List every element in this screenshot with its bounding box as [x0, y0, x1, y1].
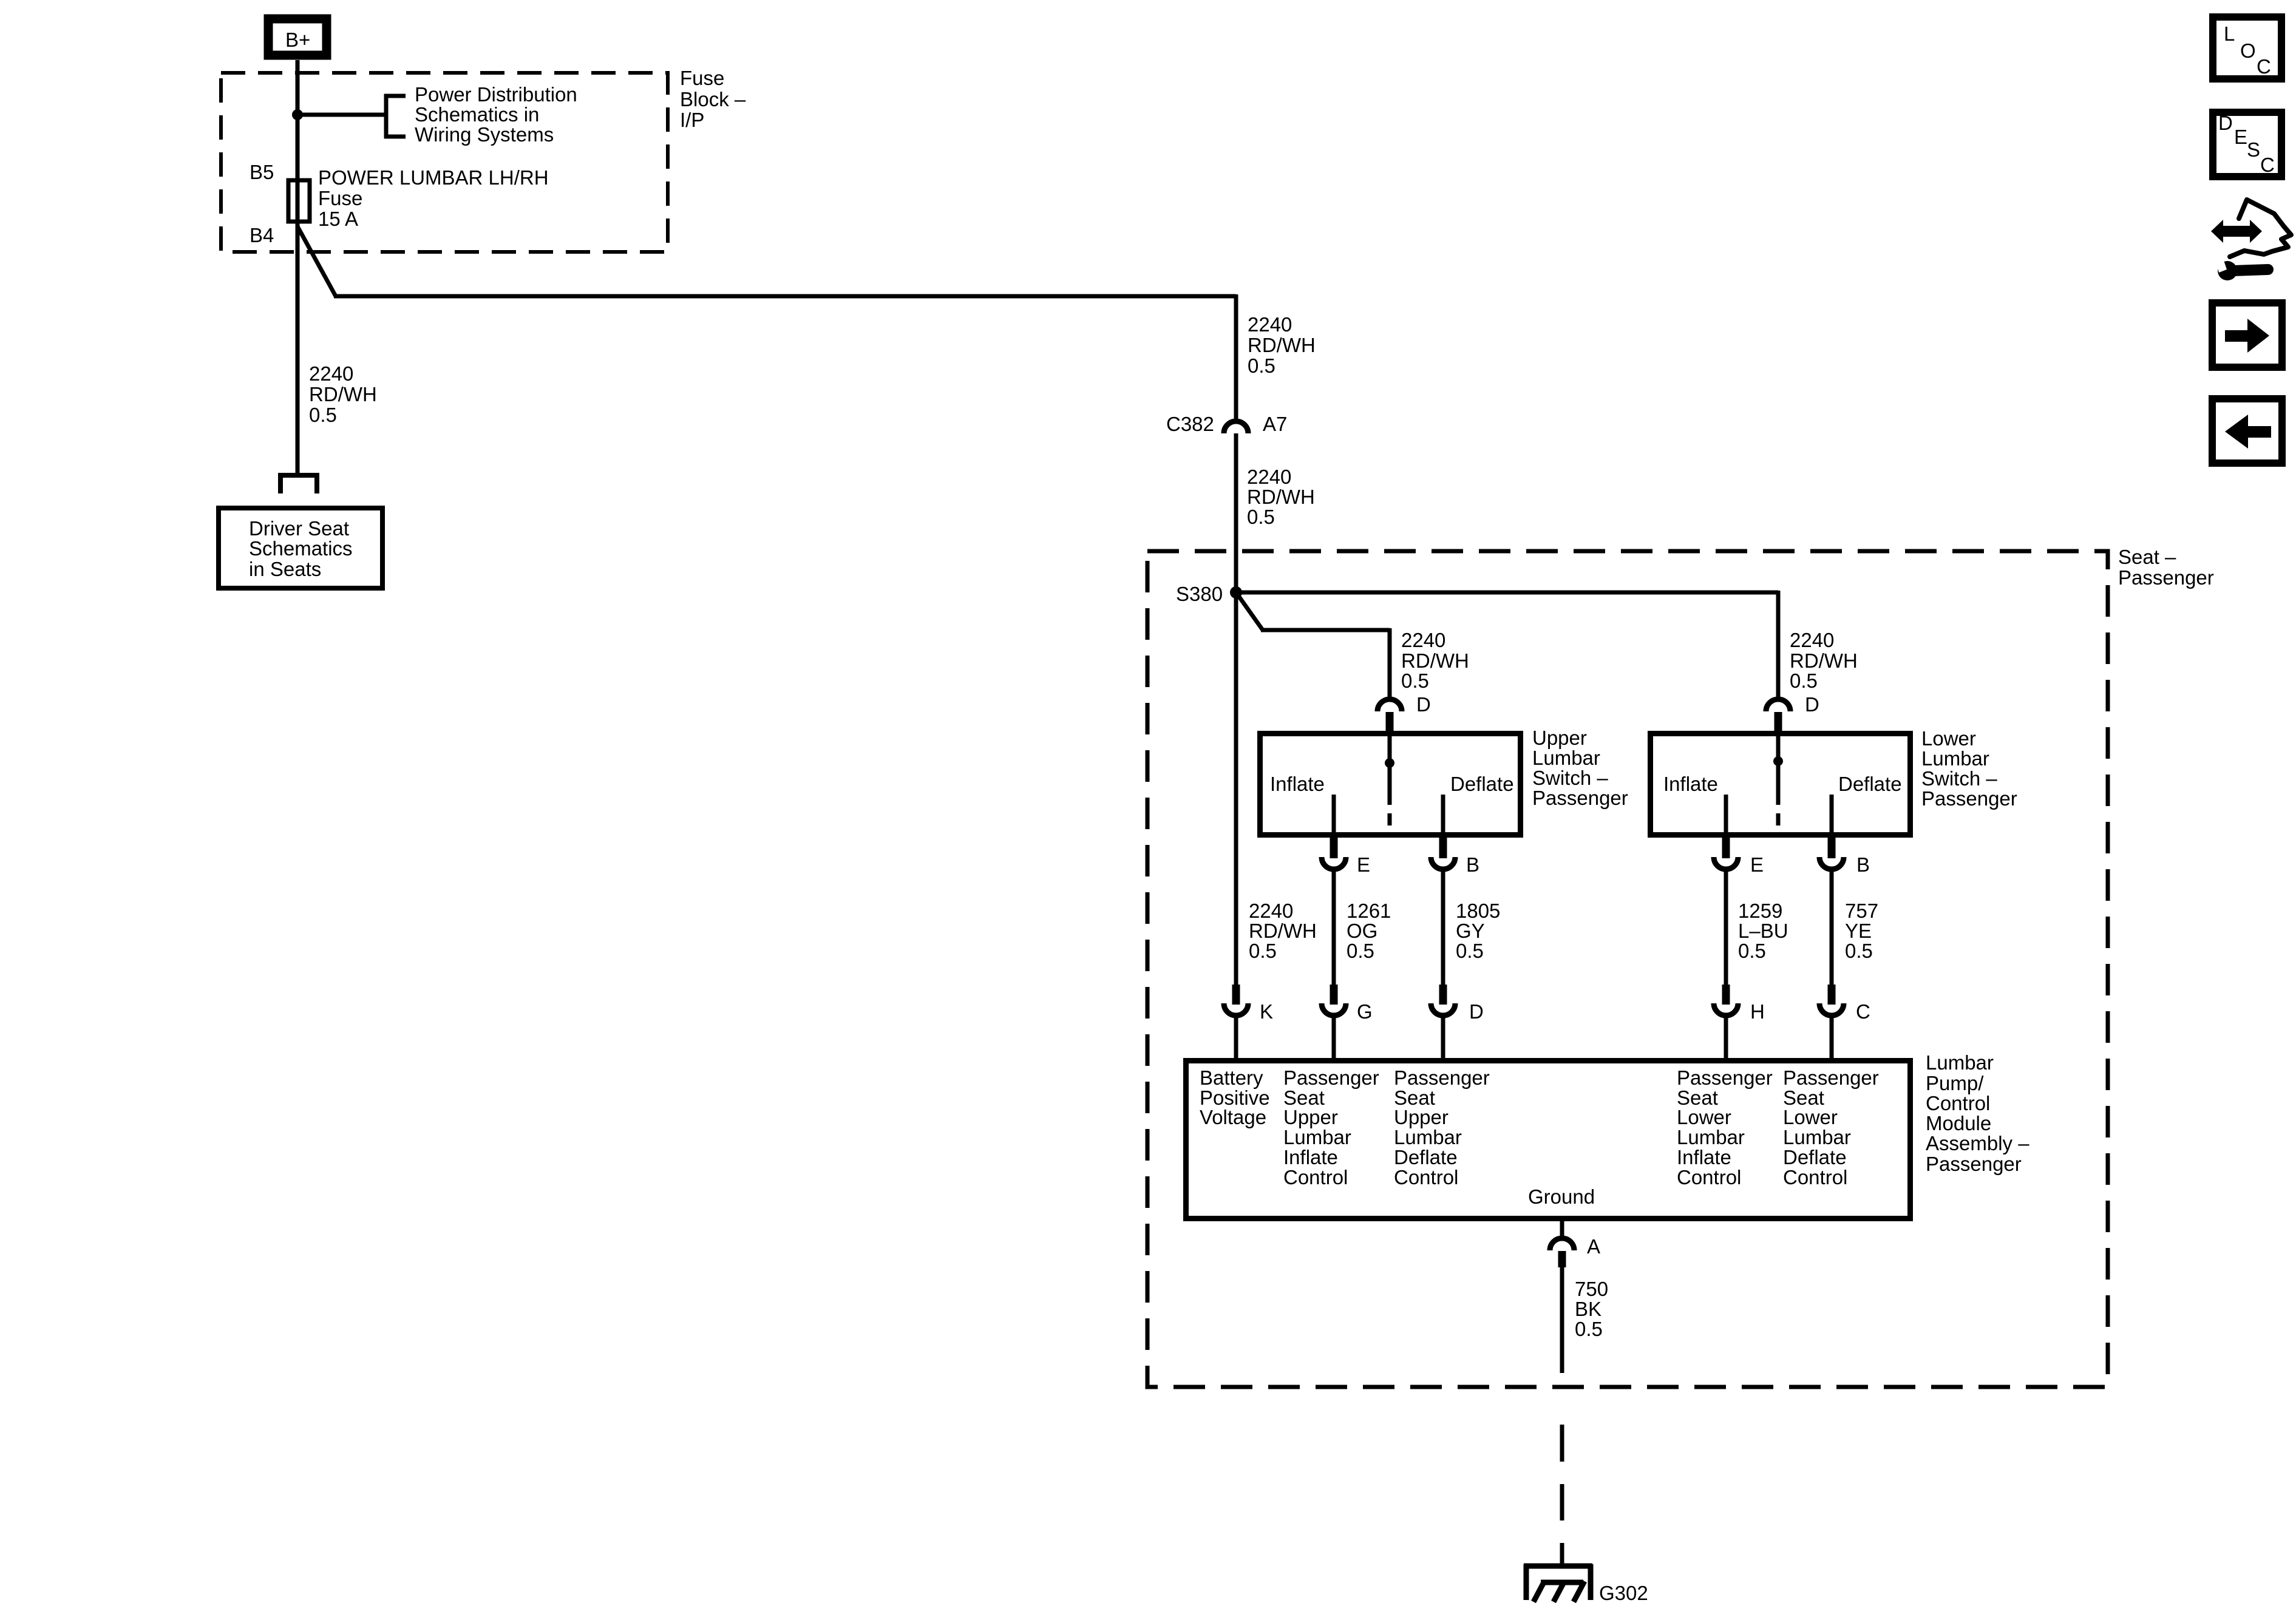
label Fuse Block - I/P: [680, 67, 746, 131]
svg-text:C382: C382: [1166, 413, 1214, 435]
svg-text:Inflate: Inflate: [1270, 773, 1325, 795]
pin B upper switch: [1431, 836, 1479, 876]
svg-text:0.5: 0.5: [309, 404, 337, 426]
wire label 1261 OG 0.5: [1347, 900, 1391, 962]
svg-text:in Seats: in Seats: [249, 558, 321, 580]
wire pin A to ground: [1560, 1267, 1564, 1373]
svg-text:2240: 2240: [1247, 466, 1291, 488]
svg-text:Block –: Block –: [680, 88, 746, 110]
svg-text:E: E: [1357, 853, 1370, 876]
svg-text:Passenger: Passenger: [1926, 1153, 2022, 1175]
svg-text:D: D: [1805, 693, 1819, 716]
svg-text:1259: 1259: [1738, 900, 1782, 922]
svg-text:POWER LUMBAR LH/RH: POWER LUMBAR LH/RH: [318, 166, 549, 189]
svg-text:Ground: Ground: [1528, 1185, 1595, 1208]
label Lower Lumbar Switch - Passenger: [1921, 727, 2017, 810]
svg-text:Lumbar: Lumbar: [1677, 1126, 1745, 1148]
svg-text:Passenger: Passenger: [2118, 566, 2214, 589]
svg-text:C: C: [2260, 154, 2275, 176]
svg-text:757: 757: [1845, 900, 1878, 922]
bracket reference Power Distribution: [384, 83, 577, 146]
svg-text:Passenger: Passenger: [1532, 787, 1628, 809]
svg-text:2240: 2240: [1790, 629, 1834, 651]
svg-text:OG: OG: [1347, 920, 1377, 942]
svg-text:Passenger: Passenger: [1783, 1066, 1879, 1089]
icon connector outline: [2230, 200, 2291, 257]
svg-text:750: 750: [1575, 1278, 1608, 1300]
svg-text:C: C: [2257, 55, 2271, 78]
svg-text:Deflate: Deflate: [1394, 1146, 1458, 1168]
Lumbar Pump Control Module Assembly box: [1186, 1061, 1911, 1219]
Lower Lumbar Switch - Passenger box: [1651, 733, 1911, 836]
svg-text:Passenger: Passenger: [1394, 1066, 1490, 1089]
wire B4 diagonal branch to right: [297, 226, 336, 296]
svg-text:0.5: 0.5: [1845, 940, 1873, 962]
icon LOC box: [2213, 17, 2281, 79]
svg-text:Battery: Battery: [1200, 1066, 1263, 1089]
svg-text:Power Distribution: Power Distribution: [415, 83, 577, 106]
svg-text:Switch –: Switch –: [1921, 767, 1997, 790]
wire label 2240 RD/WH 0.5 upper switch feed: [1401, 629, 1469, 692]
wire label 2240 RD/WH 0.5 left: [309, 362, 377, 426]
fuse block dashed box: [221, 73, 668, 252]
svg-text:S: S: [2247, 138, 2260, 161]
Driver Seat Schematics in Seats box: [219, 508, 382, 588]
svg-text:B+: B+: [285, 29, 310, 51]
svg-text:B: B: [1856, 853, 1870, 876]
fuse POWER LUMBAR LH/RH 15A: [288, 166, 549, 230]
wire down to connector C382: [1234, 294, 1238, 419]
svg-text:Passenger: Passenger: [1677, 1066, 1773, 1089]
svg-text:RD/WH: RD/WH: [309, 383, 377, 405]
connector pin D lower switch: [1766, 693, 1819, 733]
svg-text:Control: Control: [1394, 1166, 1458, 1188]
svg-text:YE: YE: [1845, 920, 1872, 942]
pin E lower switch: [1714, 836, 1764, 876]
svg-text:Passenger: Passenger: [1921, 787, 2017, 810]
wire S380 to lower lumbar switch: [1236, 591, 1778, 595]
svg-text:BK: BK: [1575, 1298, 1601, 1320]
svg-text:0.5: 0.5: [1790, 670, 1818, 692]
svg-text:Lower: Lower: [1677, 1106, 1731, 1128]
svg-text:RD/WH: RD/WH: [1247, 486, 1315, 508]
label Seat - Passenger: [2118, 546, 2214, 589]
connector pin D upper switch: [1377, 693, 1431, 733]
svg-text:RD/WH: RD/WH: [1401, 649, 1469, 672]
svg-text:L–BU: L–BU: [1738, 920, 1788, 942]
icon wrench: [2215, 255, 2268, 280]
B+ battery terminal box: [268, 19, 327, 55]
svg-text:Inflate: Inflate: [1283, 1146, 1338, 1168]
pin G pump module: [1322, 985, 1373, 1060]
wire S380 branch to upper lumbar switch: [1236, 592, 1263, 630]
svg-text:Assembly –: Assembly –: [1926, 1132, 2029, 1154]
icon DESC box: [2213, 112, 2281, 177]
svg-text:RD/WH: RD/WH: [1249, 920, 1317, 942]
node junction dot on B+ feed: [292, 109, 303, 120]
wire C382 down to S380 and K bar: [1234, 433, 1238, 985]
svg-text:L: L: [2224, 22, 2235, 45]
svg-text:G: G: [1357, 1000, 1373, 1023]
svg-text:B5: B5: [250, 161, 274, 183]
svg-text:A: A: [1587, 1235, 1600, 1258]
svg-text:K: K: [1260, 1000, 1273, 1023]
svg-text:2240: 2240: [1401, 629, 1445, 651]
svg-text:0.5: 0.5: [1456, 940, 1484, 962]
svg-text:Passenger: Passenger: [1283, 1066, 1379, 1089]
pin D pump module: [1431, 985, 1484, 1060]
wire label 2240 RD/WH 0.5 below C382: [1247, 466, 1315, 528]
svg-text:RD/WH: RD/WH: [1790, 649, 1858, 672]
svg-text:Fuse: Fuse: [318, 187, 362, 209]
svg-text:GY: GY: [1456, 920, 1485, 942]
svg-text:0.5: 0.5: [1575, 1318, 1603, 1340]
svg-text:Fuse: Fuse: [680, 67, 724, 89]
wire label 1805 GY 0.5: [1456, 900, 1500, 962]
svg-text:G302: G302: [1599, 1582, 1648, 1604]
svg-text:0.5: 0.5: [1247, 506, 1275, 528]
svg-text:Switch –: Switch –: [1532, 767, 1608, 789]
svg-text:2240: 2240: [1249, 900, 1293, 922]
svg-text:Deflate: Deflate: [1450, 773, 1514, 795]
svg-text:2240: 2240: [1248, 313, 1292, 336]
ground G302: [1524, 1564, 1648, 1604]
svg-text:1261: 1261: [1347, 900, 1391, 922]
svg-text:Inflate: Inflate: [1663, 773, 1718, 795]
svg-text:RD/WH: RD/WH: [1248, 334, 1316, 356]
svg-text:0.5: 0.5: [1401, 670, 1429, 692]
svg-text:Lumbar: Lumbar: [1532, 747, 1600, 769]
label Lumbar Pump/Control Module Assembly - Passenger: [1926, 1051, 2029, 1175]
pin A ground pin pump module: [1550, 1221, 1600, 1267]
wire label 757 YE 0.5: [1845, 900, 1878, 962]
icon arrow left box: [2212, 399, 2282, 463]
svg-text:Lumbar: Lumbar: [1783, 1126, 1851, 1148]
svg-text:Upper: Upper: [1394, 1106, 1449, 1128]
svg-text:D: D: [1416, 693, 1431, 716]
svg-text:Lower: Lower: [1783, 1106, 1838, 1128]
svg-text:0.5: 0.5: [1738, 940, 1766, 962]
svg-text:Deflate: Deflate: [1838, 773, 1902, 795]
svg-text:H: H: [1750, 1000, 1765, 1023]
pin H pump module: [1714, 985, 1765, 1060]
wire B to C: [1830, 870, 1834, 985]
wire horizontal run to passenger seat: [334, 294, 1236, 299]
wire junction to power distribution bracket: [297, 113, 386, 117]
svg-text:Control: Control: [1783, 1166, 1847, 1188]
label Upper Lumbar Switch - Passenger: [1532, 727, 1628, 809]
wire label 2240 RD/WH 0.5 above C382: [1248, 313, 1316, 377]
Upper Lumbar Switch - Passenger box: [1260, 733, 1521, 836]
svg-text:Schematics in: Schematics in: [415, 103, 539, 126]
pin E upper switch: [1322, 836, 1370, 876]
wire dashed to G302: [1560, 1425, 1564, 1565]
wire B to D: [1441, 870, 1445, 985]
svg-text:Lumbar: Lumbar: [1394, 1126, 1462, 1148]
connector C382 pin A7: [1166, 413, 1287, 435]
svg-text:A7: A7: [1263, 413, 1287, 435]
svg-text:Inflate: Inflate: [1677, 1146, 1731, 1168]
svg-text:S380: S380: [1176, 583, 1223, 605]
wire label 2240 RD/WH 0.5 lower switch feed: [1790, 629, 1858, 692]
svg-text:Module: Module: [1926, 1112, 1991, 1134]
svg-text:Deflate: Deflate: [1783, 1146, 1847, 1168]
svg-text:Upper: Upper: [1532, 727, 1587, 749]
svg-text:Control: Control: [1926, 1092, 1990, 1114]
svg-text:Upper: Upper: [1283, 1106, 1338, 1128]
svg-text:2240: 2240: [309, 362, 353, 385]
pin K pump module: [1224, 985, 1273, 1060]
svg-text:C: C: [1856, 1000, 1870, 1023]
wire label 750 BK 0.5: [1575, 1278, 1608, 1340]
icon arrow right box: [2212, 303, 2282, 367]
wire E to H: [1724, 870, 1728, 985]
wire B+ down through fuse to driver seat branch: [296, 60, 300, 473]
svg-text:I/P: I/P: [680, 109, 704, 131]
svg-text:Lower: Lower: [1921, 727, 1976, 750]
wire label 2240 RD/WH 0.5 battery feed: [1249, 900, 1317, 962]
svg-text:Wiring Systems: Wiring Systems: [415, 123, 554, 146]
icon connector view double arrow: [2211, 220, 2262, 243]
terminal staple to driver seat: [278, 473, 319, 493]
svg-text:Voltage: Voltage: [1200, 1106, 1266, 1128]
svg-text:Lumbar: Lumbar: [1926, 1051, 1994, 1074]
pin C pump module: [1819, 985, 1870, 1060]
Seat - Passenger dashed box: [1147, 551, 2108, 1387]
svg-text:D: D: [2218, 112, 2233, 134]
svg-text:E: E: [1750, 853, 1764, 876]
svg-text:0.5: 0.5: [1249, 940, 1277, 962]
svg-text:0.5: 0.5: [1248, 354, 1275, 377]
svg-text:E: E: [2234, 126, 2247, 148]
wire E to G: [1332, 870, 1336, 985]
svg-text:B4: B4: [250, 224, 274, 246]
pin B lower switch: [1819, 836, 1870, 876]
svg-text:O: O: [2240, 39, 2256, 62]
svg-text:Driver Seat: Driver Seat: [249, 517, 349, 540]
svg-text:Lumbar: Lumbar: [1921, 747, 1989, 770]
wire label 1259 L-BU 0.5: [1738, 900, 1788, 962]
svg-text:1805: 1805: [1456, 900, 1500, 922]
splice S380: [1176, 583, 1242, 605]
svg-text:Control: Control: [1283, 1166, 1348, 1188]
svg-text:B: B: [1466, 853, 1479, 876]
svg-text:Seat –: Seat –: [2118, 546, 2176, 568]
svg-text:D: D: [1469, 1000, 1484, 1023]
svg-text:0.5: 0.5: [1347, 940, 1374, 962]
svg-text:Pump/: Pump/: [1926, 1072, 1984, 1094]
svg-text:Schematics: Schematics: [249, 537, 353, 560]
svg-text:Lumbar: Lumbar: [1283, 1126, 1351, 1148]
svg-text:15 A: 15 A: [318, 208, 358, 230]
svg-text:Control: Control: [1677, 1166, 1741, 1188]
